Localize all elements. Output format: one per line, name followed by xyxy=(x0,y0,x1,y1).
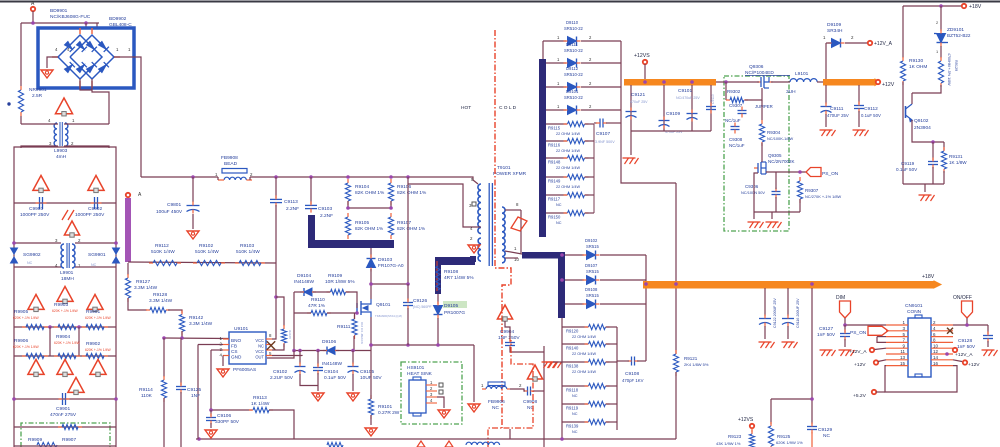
label PS_ON xyxy=(822,171,839,177)
junction bar3 xyxy=(644,282,814,286)
svg-text:C9308: C9308 xyxy=(729,137,743,142)
label D9106 xyxy=(322,339,342,367)
label FB9908 xyxy=(221,155,238,167)
svg-text:C9104: C9104 xyxy=(324,369,338,375)
label FB9906 xyxy=(488,399,505,411)
wire R9115 r xyxy=(585,123,594,125)
svg-text:R9104: R9104 xyxy=(355,184,369,190)
diode D9109 xyxy=(828,39,845,48)
arrow mark 1 xyxy=(417,441,425,447)
label R9143 xyxy=(288,330,292,339)
capacitor C9112 xyxy=(854,102,864,113)
power bus +12V xyxy=(624,79,716,86)
svg-text:CONN: CONN xyxy=(907,309,922,315)
wire gnd rail q9102 xyxy=(903,183,944,185)
junction q9102 xyxy=(931,140,935,144)
resistor R9149 xyxy=(564,174,589,179)
hot/cold isolation line xyxy=(495,30,511,428)
wire r9101 t xyxy=(370,351,372,400)
wire cap row xyxy=(14,202,116,204)
wire R9117 r xyxy=(585,194,594,196)
wire r9307 bot xyxy=(799,199,801,212)
wire ps_on row xyxy=(766,171,806,173)
resistor R9148 xyxy=(564,155,589,160)
svg-text:R9102: R9102 xyxy=(199,243,213,249)
svg-text:18MH: 18MH xyxy=(61,276,74,282)
label C9109 xyxy=(665,111,683,134)
diode D9110 xyxy=(564,37,581,46)
resistor R9112 xyxy=(149,260,181,265)
svg-text:Q9306: Q9306 xyxy=(749,64,764,70)
label +18V top xyxy=(969,4,982,10)
svg-text:SR515: SR515 xyxy=(586,244,599,249)
surge box outline xyxy=(21,423,110,447)
wire row 510k xyxy=(128,262,276,263)
label C9104 xyxy=(324,369,347,381)
warning triangle T12 xyxy=(497,305,512,321)
label R9140 xyxy=(566,346,596,357)
wire src branch xyxy=(371,344,474,346)
svg-text:C9116 200UF 25V: C9116 200UF 25V xyxy=(796,298,800,328)
d9109 pins xyxy=(823,35,854,40)
wire r9114 b xyxy=(163,398,165,447)
label PS_ON2 xyxy=(850,330,867,336)
svg-text:510K 1/4W: 510K 1/4W xyxy=(236,249,260,255)
svg-text:R9130: R9130 xyxy=(909,58,923,64)
svg-text:C9129: C9129 xyxy=(818,427,832,433)
ladder right bus xyxy=(593,124,595,213)
pin +12V_A l xyxy=(870,348,874,352)
ground c9801 xyxy=(187,231,199,239)
label +12V_A l xyxy=(849,349,867,355)
label R9112 xyxy=(151,243,175,255)
svg-text:PS_ON: PS_ON xyxy=(822,171,839,177)
warning triangle T9 xyxy=(57,360,73,377)
wire c9113 bot xyxy=(275,205,277,263)
wire R9120 l xyxy=(562,326,588,328)
ground bridge xyxy=(41,70,53,78)
svg-text:22 OHM 1/4W: 22 OHM 1/4W xyxy=(572,352,596,356)
diode D9106 xyxy=(323,347,339,355)
wire c9112 g xyxy=(858,111,860,127)
junction src xyxy=(369,343,440,347)
wire R9116 r xyxy=(585,140,594,142)
wire bottom box row xyxy=(14,445,116,447)
capacitor C9111 xyxy=(821,103,832,115)
junctions c9901 xyxy=(12,397,118,401)
wire D9108 r xyxy=(600,303,646,305)
label R9109 xyxy=(325,273,355,285)
svg-text:22 OHM 1/4W: 22 OHM 1/4W xyxy=(556,149,580,153)
wire d9105 bot xyxy=(437,318,439,345)
resistor R9118 xyxy=(585,383,610,388)
wire pin1 row xyxy=(164,337,229,340)
wire c9125 col xyxy=(180,338,182,385)
wire c9108 r xyxy=(637,360,646,362)
wire c9128 v xyxy=(987,325,989,334)
resistor R9909 xyxy=(37,442,57,447)
svg-text:13: 13 xyxy=(900,355,906,360)
svg-text:0.1uF 50V: 0.1uF 50V xyxy=(896,167,918,172)
net flag DIM xyxy=(840,301,851,318)
capacitor C9106 xyxy=(206,414,216,425)
capacitor C9103 xyxy=(305,201,317,212)
label D9109 xyxy=(827,22,843,34)
warning triangle T1 xyxy=(55,98,72,116)
transistor Q9102 xyxy=(906,104,913,122)
wire R9149 r xyxy=(585,176,594,178)
svg-text:15: 15 xyxy=(900,361,906,366)
wire pin1 xfmr xyxy=(505,251,522,254)
wire l9903 tr xyxy=(64,123,109,125)
svg-text:470UF 25V: 470UF 25V xyxy=(827,113,849,118)
wire sec tap8 xyxy=(505,209,521,211)
wire c9126 b xyxy=(407,308,409,345)
svg-text:C9125: C9125 xyxy=(187,387,201,393)
svg-text:VCC: VCC xyxy=(255,338,264,343)
resistor R9901 xyxy=(82,324,108,329)
resistor R9307 xyxy=(797,177,802,203)
svg-text:9H168: 9H168 xyxy=(288,330,292,339)
svg-text:SR510-22: SR510-22 xyxy=(564,95,584,100)
wire c9121 v xyxy=(630,85,632,131)
svg-text:C9107: C9107 xyxy=(596,131,610,137)
resistor R9113 xyxy=(249,407,273,412)
label U9101 xyxy=(234,326,248,332)
svg-text:NC: NC xyxy=(572,412,578,416)
label R9116 xyxy=(548,143,580,154)
capacitor C9107 xyxy=(596,119,607,128)
junction bottom xyxy=(197,437,564,441)
resistor R9103 xyxy=(235,260,265,265)
svg-text:D9105: D9105 xyxy=(444,303,458,309)
ground c9127 xyxy=(839,350,855,356)
wire hv bus2 xyxy=(250,177,473,180)
wire R9119 l xyxy=(562,403,588,405)
label R9901 xyxy=(85,309,112,320)
capacitor C9113 xyxy=(270,195,282,206)
resistor R9139 xyxy=(585,419,610,424)
wire gnd pin xyxy=(222,356,224,367)
wire c9901 row xyxy=(14,398,116,400)
svg-text:47R 1%: 47R 1% xyxy=(308,303,326,309)
svg-text:NC: NC xyxy=(27,261,33,265)
capacitor C9110 xyxy=(706,103,716,114)
wire c9127 v xyxy=(844,325,846,332)
transformer T9101 primary xyxy=(478,184,481,234)
svg-text:R9148: R9148 xyxy=(548,160,561,165)
svg-text:L9901: L9901 xyxy=(60,270,74,276)
junction x812 xyxy=(810,397,814,401)
resistor R9907 xyxy=(58,424,82,429)
label C9901 xyxy=(50,406,77,418)
pin +12V l xyxy=(874,360,878,364)
svg-text:D9101: D9101 xyxy=(566,89,579,94)
svg-text:1000PF 250V: 1000PF 250V xyxy=(20,212,50,218)
svg-text:620K +-1% 1/4W: 620K +-1% 1/4W xyxy=(13,316,40,320)
resistor R9111 xyxy=(352,315,357,339)
warning triangle T6 xyxy=(57,287,73,304)
label R9905 xyxy=(13,309,40,320)
wire D9110 right xyxy=(581,40,621,42)
resistor R9142 xyxy=(179,311,184,336)
svg-text:C9112: C9112 xyxy=(864,106,878,112)
wire r9130 bot xyxy=(902,82,904,184)
wire r9130 top xyxy=(902,6,904,58)
capacitor C9108 xyxy=(628,357,639,366)
label D9112 xyxy=(557,66,592,86)
svg-text:R9128: R9128 xyxy=(153,292,167,298)
wire r9131 b xyxy=(943,171,945,184)
svg-text:C9108: C9108 xyxy=(625,371,639,377)
chip pin numbers xyxy=(220,333,272,358)
bus bar C xyxy=(539,59,546,237)
resistor R9105 xyxy=(345,213,350,239)
wire x621 down xyxy=(621,123,676,183)
pin +12V_A xyxy=(868,41,872,45)
svg-text:+5.2V: +5.2V xyxy=(853,393,867,399)
label CN9101 xyxy=(905,303,923,315)
nc cross xyxy=(267,341,275,349)
resistor R9127 xyxy=(125,274,130,302)
junction fb xyxy=(209,408,213,412)
warning triangle T13 xyxy=(527,365,542,381)
svg-text:NC/1uF: NC/1uF xyxy=(729,143,745,148)
diode D9112 xyxy=(564,83,581,92)
diode D9104 xyxy=(300,288,316,296)
junction onoff xyxy=(965,323,969,327)
wire c9105 b xyxy=(352,374,354,391)
svg-text:3.3M 1/4W: 3.3M 1/4W xyxy=(149,298,173,304)
svg-text:NC/100K-1/8W: NC/100K-1/8W xyxy=(767,136,793,141)
wire R9117 l xyxy=(546,194,567,196)
svg-text:R9127: R9127 xyxy=(136,279,150,285)
warning triangle T4 xyxy=(64,221,79,237)
svg-text:16: 16 xyxy=(933,361,939,366)
resistor R9130 xyxy=(900,57,905,85)
label C9306 xyxy=(741,184,765,195)
svg-text:SG9902: SG9902 xyxy=(23,252,41,258)
xfmr pin3 square xyxy=(472,202,476,206)
svg-text:C9105: C9105 xyxy=(360,369,374,375)
svg-text:NC/270K +-1% 1/8W: NC/270K +-1% 1/8W xyxy=(805,194,842,199)
svg-text:R9907: R9907 xyxy=(62,437,76,443)
svg-text:C9908: C9908 xyxy=(523,399,537,405)
svg-text:NC/KBJ608G-FUC: NC/KBJ608G-FUC xyxy=(50,14,91,20)
wire dim xyxy=(844,318,846,325)
wire R9138 l xyxy=(562,361,588,363)
wire q-l xyxy=(771,81,790,83)
diode D9103 xyxy=(367,255,376,272)
svg-text:R9108: R9108 xyxy=(444,269,458,275)
diode D9107 xyxy=(583,276,600,285)
svg-text:R9119: R9119 xyxy=(566,406,579,411)
label D9110 xyxy=(557,20,592,40)
label BD9901 xyxy=(50,8,91,20)
svg-text:+12V_A: +12V_A xyxy=(874,41,893,47)
svg-text:2.2NF: 2.2NF xyxy=(286,206,299,212)
svg-text:R9118: R9118 xyxy=(566,388,579,393)
wire D9107 r xyxy=(600,279,646,281)
wire d9106 l xyxy=(294,350,326,352)
ground ladder xyxy=(542,362,558,368)
capacitor C9116 xyxy=(782,315,794,327)
pin +18V xyxy=(962,4,966,8)
connector CN9101 xyxy=(908,315,931,377)
wire c9129 b xyxy=(811,432,813,447)
resistor R9117 xyxy=(564,192,589,197)
wire d9105 top xyxy=(437,294,439,304)
svg-text:VCC: VCC xyxy=(255,349,264,354)
wire out row xyxy=(267,351,294,359)
capacitor C9125 xyxy=(176,383,186,394)
label +12VS xyxy=(634,53,650,59)
label R9907 xyxy=(62,437,76,443)
svg-text:NC/1uF: NC/1uF xyxy=(725,118,741,123)
resistor R9123 xyxy=(749,430,754,447)
label C9902 xyxy=(75,206,105,218)
label C9102 xyxy=(270,369,294,381)
label C9107 xyxy=(595,131,615,144)
wire c9122 v2 xyxy=(764,326,766,339)
wire gate col xyxy=(293,292,295,351)
svg-text:C9109: C9109 xyxy=(666,111,680,117)
wire r9110 l xyxy=(294,312,311,314)
wire R9119 r xyxy=(606,403,617,405)
wire pin1 dim xyxy=(845,324,886,326)
wire hv bus xyxy=(141,176,218,178)
svg-text:NC: NC xyxy=(258,344,264,349)
wire gbox rail xyxy=(754,211,800,213)
warning triangle T8 xyxy=(28,360,44,377)
label +12V l xyxy=(854,362,866,368)
capacitor C9902 xyxy=(91,197,102,209)
svg-text:C9111: C9111 xyxy=(830,106,844,112)
svg-text:1: 1 xyxy=(936,49,938,54)
wire c9109 v xyxy=(663,85,665,131)
junction pin12 xyxy=(945,352,949,356)
resistor R9129 xyxy=(938,57,943,87)
svg-text:+18V: +18V xyxy=(922,274,935,280)
resistor R9120 xyxy=(585,324,610,329)
capacitor C9308 xyxy=(731,123,740,134)
svg-text:1nF 50V: 1nF 50V xyxy=(817,332,836,338)
mosfet Q9101 xyxy=(357,299,371,317)
svg-text:C9901: C9901 xyxy=(56,406,70,412)
svg-text:SR515: SR515 xyxy=(586,293,599,298)
bridge rectifier BD9901/BD9902 xyxy=(38,28,134,88)
label R9302 xyxy=(725,89,743,123)
svg-text:4R7 1/4W 5%: 4R7 1/4W 5% xyxy=(444,275,474,281)
svg-text:82K OHM 1%: 82K OHM 1% xyxy=(397,226,425,231)
svg-text:C9306: C9306 xyxy=(745,184,759,189)
resistor R9143 xyxy=(281,325,286,347)
wire r9121 bot xyxy=(675,372,677,439)
svg-text:D9112: D9112 xyxy=(566,66,579,71)
xfmr pin1 label xyxy=(514,246,517,251)
wire bridge stub1 xyxy=(85,23,87,28)
label R9148 xyxy=(548,160,580,171)
resistor NR9901 xyxy=(18,86,23,116)
svg-text:22 OHM 1/4W: 22 OHM 1/4W xyxy=(556,132,580,136)
resistor R9905 xyxy=(22,324,48,329)
ground c9112 xyxy=(853,130,869,136)
label C9908 xyxy=(523,399,537,411)
wire q9102 e xyxy=(912,120,944,142)
svg-text:620K +-1% 1/4W: 620K +-1% 1/4W xyxy=(85,348,112,352)
label C9122 xyxy=(773,298,777,328)
svg-text:2.5R: 2.5R xyxy=(32,93,43,99)
heat sink part xyxy=(409,377,426,416)
label NR9901 xyxy=(29,87,47,99)
svg-text:FB9906: FB9906 xyxy=(488,399,505,405)
svg-text:+12V_A: +12V_A xyxy=(849,349,867,355)
label Q9102 xyxy=(914,118,931,131)
resistor R9138 xyxy=(585,359,610,364)
wire r910x mid2 xyxy=(390,201,392,208)
svg-text:R0J 101 J8EKXN: R0J 101 J8EKXN xyxy=(360,322,364,344)
capacitor C9306 xyxy=(772,188,781,199)
resistor R9128 xyxy=(146,307,170,312)
resistor R9101 xyxy=(368,395,373,419)
ground heat sink xyxy=(438,410,450,418)
svg-text:R9304: R9304 xyxy=(767,130,781,135)
wire pin5 xyxy=(473,180,478,184)
wire 12vs xyxy=(644,64,646,79)
capacitor C9104 xyxy=(313,364,323,375)
svg-text:620K +-1% 1/4W: 620K +-1% 1/4W xyxy=(54,341,81,345)
wire pin2 down xyxy=(197,345,199,440)
label Q9305 xyxy=(768,153,795,164)
wire A down xyxy=(32,11,34,23)
bridge pin labels xyxy=(55,47,131,52)
bottom resistor stub xyxy=(327,442,343,447)
wire r910x tie xyxy=(348,207,391,209)
ground extra xyxy=(820,350,836,356)
svg-text:NC/P1004ED: NC/P1004ED xyxy=(745,70,774,76)
wire gate1 xyxy=(313,291,330,293)
wire q9305 src xyxy=(754,173,758,219)
svg-text:C9127: C9127 xyxy=(819,326,833,332)
label R9121 xyxy=(684,356,709,367)
wire c9116 v2 xyxy=(787,326,789,339)
wire pin7b xyxy=(877,337,886,343)
svg-text:HS9101: HS9101 xyxy=(407,365,425,371)
svg-text:1K OHM: 1K OHM xyxy=(909,64,927,70)
wire pin4 xyxy=(477,226,481,228)
wire D9111 left xyxy=(546,62,566,64)
svg-text:(NC) 560PF: (NC) 560PF xyxy=(413,305,432,309)
label C9119 xyxy=(896,161,918,172)
pin +12VS xyxy=(643,60,647,64)
wire x544 xyxy=(543,346,545,447)
label D9101 xyxy=(557,89,592,109)
wire x812 xyxy=(811,288,813,424)
label +12V xyxy=(882,82,895,88)
label fb pins xyxy=(481,383,522,388)
svg-text:1000PF 250V: 1000PF 250V xyxy=(75,212,105,218)
wire nr bottom xyxy=(20,116,22,124)
wire r9114 col xyxy=(163,338,165,377)
wire R9139 r xyxy=(606,421,617,423)
wire bottom bus xyxy=(196,438,676,440)
wire c9110 v xyxy=(710,85,712,131)
wire bridge bottom2 xyxy=(92,79,109,124)
wire gate2 xyxy=(346,292,357,308)
svg-text:1K 1/8W: 1K 1/8W xyxy=(949,160,967,165)
capacitor C9122 xyxy=(759,315,771,327)
label +5.2V xyxy=(853,393,867,399)
